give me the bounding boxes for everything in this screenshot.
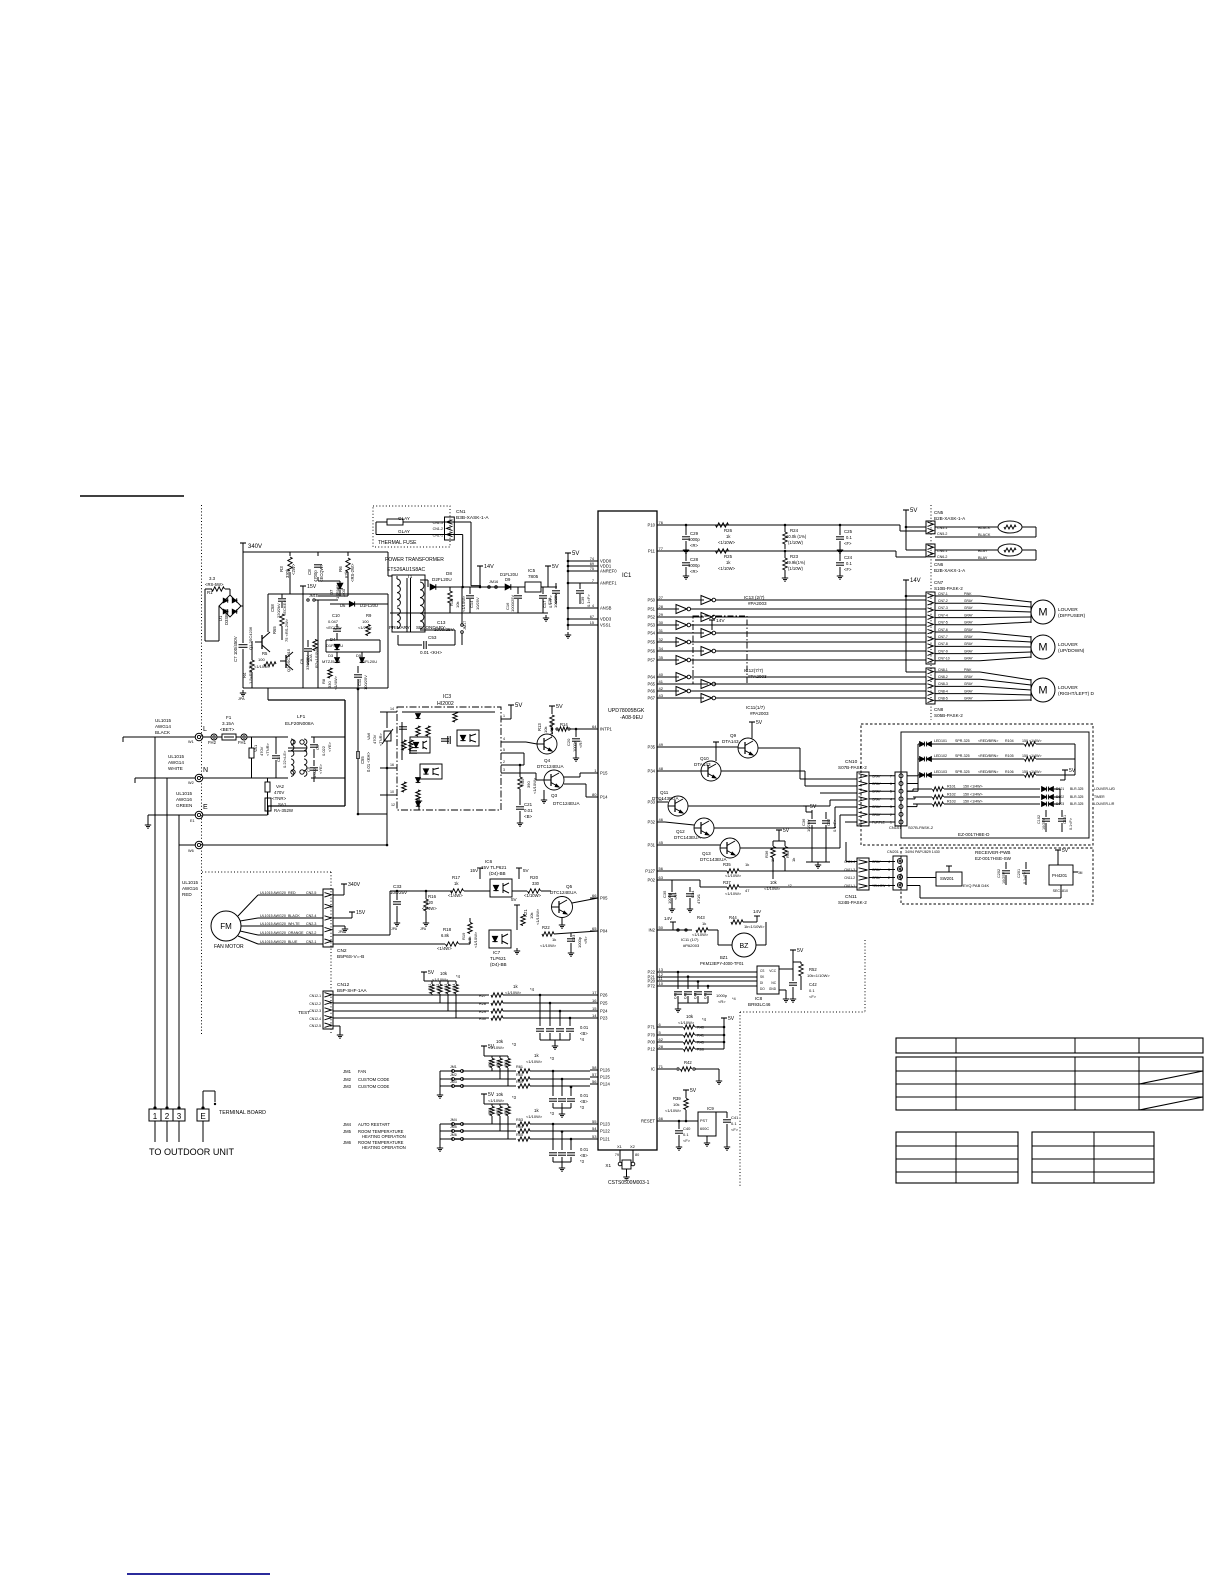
svg-text:P55: P55 <box>648 640 656 645</box>
svg-text:220/2kV: 220/2kV <box>276 603 281 618</box>
svg-text:W6: W6 <box>188 849 194 853</box>
svg-text:C29: C29 <box>690 531 699 536</box>
svg-text:RED: RED <box>182 892 192 897</box>
svg-text:0.01: 0.01 <box>580 1147 589 1152</box>
svg-text:CN8-1: CN8-1 <box>938 668 948 672</box>
svg-text:<1/10W>: <1/10W> <box>540 943 557 948</box>
svg-text:*3: *3 <box>550 1111 555 1116</box>
transistor Q13 <box>720 838 740 858</box>
svg-text:JPA: JPA <box>238 697 245 701</box>
svg-text:CN12-1: CN12-1 <box>309 994 321 998</box>
svg-text:4700p: 4700p <box>313 570 318 582</box>
node 5V tick r31 <box>421 971 427 973</box>
svg-text:R52: R52 <box>809 967 817 972</box>
motor M2 louver up/down <box>1031 635 1055 659</box>
svg-text:UL1015 AWG20: UL1015 AWG20 <box>260 922 286 926</box>
svg-text:M: M <box>1038 607 1047 619</box>
svg-text:3: 3 <box>503 768 505 772</box>
resistor network R31-R34 <box>431 981 433 984</box>
svg-text:FH1: FH1 <box>238 740 247 745</box>
svg-text:P31: P31 <box>648 843 656 848</box>
resistor R53 <box>518 1122 530 1126</box>
capacitor C21 <box>516 806 524 808</box>
svg-text:LOUVER-U/D: LOUVER-U/D <box>1094 787 1115 791</box>
svg-text:CN8: CN8 <box>934 707 944 712</box>
resistor network R64 R63 R62 <box>491 1056 493 1058</box>
IC3 left pin 16 <box>380 767 397 769</box>
node 14V tick ic12 <box>709 619 715 621</box>
resistor R6 <box>346 558 350 572</box>
IC U5 regulator 7805 <box>525 582 541 592</box>
svg-text:R9: R9 <box>366 613 372 618</box>
svg-text:UL1015 AWG20: UL1015 AWG20 <box>260 931 286 935</box>
resistor R35 <box>727 869 739 873</box>
svg-text:14: 14 <box>592 1013 597 1018</box>
svg-text:79: 79 <box>615 1153 619 1157</box>
jumper JM16 <box>488 586 491 589</box>
svg-text:P32: P32 <box>648 820 656 825</box>
fuse holder FH1 <box>241 734 247 740</box>
connector CN2 <box>323 889 333 947</box>
svg-text:R8: R8 <box>321 678 326 684</box>
terminal box E <box>197 1109 209 1121</box>
wire thermal fuse upper <box>376 521 387 523</box>
svg-text:GLAY: GLAY <box>398 516 410 521</box>
svg-text:R16: R16 <box>428 894 437 899</box>
svg-text:UL1015 AWG20: UL1015 AWG20 <box>260 940 286 944</box>
svg-text:TIMER: TIMER <box>1094 795 1105 799</box>
wire thermal fuse lower <box>376 534 463 536</box>
svg-text:R106: R106 <box>1005 770 1014 774</box>
transformer T1 core <box>406 578 408 632</box>
svg-text:IN2: IN2 <box>648 928 655 933</box>
wire R3 bottom <box>289 572 291 594</box>
svg-text:0.01: 0.01 <box>580 1093 589 1098</box>
svg-text:UL1015 AWG20: UL1015 AWG20 <box>260 891 286 895</box>
wire P10 line <box>665 524 900 526</box>
svg-text:<1/10W>: <1/10W> <box>505 990 522 995</box>
svg-text:P12: P12 <box>648 1047 656 1052</box>
svg-text:(1/10W): (1/10W) <box>788 540 803 545</box>
CN101 pin circles <box>899 774 903 778</box>
terminal W6 <box>195 841 203 849</box>
ground c35 c34 <box>671 906 673 909</box>
svg-text:C14: C14 <box>469 600 474 608</box>
svg-text:0.022: 0.022 <box>312 767 317 778</box>
svg-text:330k: 330k <box>285 568 290 578</box>
svg-text:P65: P65 <box>648 682 656 687</box>
svg-text:46: 46 <box>659 817 664 822</box>
svg-text:UL1015: UL1015 <box>155 718 172 723</box>
led rows LED101-103 <box>907 775 918 777</box>
capacitor C101 <box>1058 818 1066 820</box>
terminal E <box>195 811 203 819</box>
transistor Q10 <box>701 761 721 781</box>
thermal fuse dotted box <box>373 506 450 547</box>
svg-text:10k: 10k <box>496 1039 504 1044</box>
svg-text:R27: R27 <box>479 994 486 998</box>
wire receiver bottom <box>907 885 920 887</box>
wire psu ground rail <box>390 612 548 614</box>
svg-text:C9: C9 <box>299 658 304 664</box>
svg-text:4: 4 <box>592 604 594 608</box>
svg-text:GRAY: GRAY <box>964 657 974 661</box>
capacitor C53 <box>423 641 425 649</box>
resistor R36 <box>771 847 775 858</box>
svg-text:CN12-5: CN12-5 <box>309 1024 321 1028</box>
svg-text:7: 7 <box>592 579 594 583</box>
svg-text:WHITE: WHITE <box>168 766 183 771</box>
svg-text:JM3: JM3 <box>450 1080 457 1084</box>
svg-text:<ECQB>: <ECQB> <box>326 625 343 630</box>
svg-text:CN7-10: CN7-10 <box>938 657 950 661</box>
surge arrester SA1 <box>265 798 271 811</box>
svg-text:PKM13EPY-4000-TF01: PKM13EPY-4000-TF01 <box>700 961 744 966</box>
svg-text:<1/4W>: <1/4W> <box>333 675 338 690</box>
wire cn101 to rows <box>907 790 913 792</box>
svg-text:IC5: IC5 <box>528 568 536 573</box>
svg-text:GRAY: GRAY <box>964 697 974 701</box>
svg-text:<B>: <B> <box>580 1099 588 1104</box>
resistor R44 <box>731 920 743 924</box>
svg-text:DO: DO <box>760 987 765 991</box>
svg-text:5V: 5V <box>523 868 530 873</box>
svg-text:5V: 5V <box>1062 848 1069 854</box>
capacitor C25 <box>836 536 844 538</box>
motor M3 louver right/left <box>1031 678 1055 702</box>
IC3 right pin 5 <box>501 752 524 754</box>
transistor Q3 <box>544 770 564 790</box>
svg-text:DTC124EUA: DTC124EUA <box>550 890 577 895</box>
svg-text:GND: GND <box>769 987 777 991</box>
wire ic9 bottom <box>706 1136 708 1140</box>
svg-text:R54: R54 <box>516 1125 523 1129</box>
svg-text:3M: 3M <box>1078 871 1083 875</box>
table small right <box>1032 1132 1154 1183</box>
svg-text:CN8-4: CN8-4 <box>938 689 948 693</box>
svg-text:P35: P35 <box>648 745 656 750</box>
svg-text:66: 66 <box>659 1116 664 1121</box>
svg-text:C55: C55 <box>360 756 365 764</box>
connector CN8 <box>926 668 935 704</box>
svg-text:<1/10W>: <1/10W> <box>535 908 540 925</box>
svg-text:1k: 1k <box>552 937 556 942</box>
resistor R15 <box>518 777 522 789</box>
svg-text:GRAY: GRAY <box>964 599 974 603</box>
svg-text:<1/10W>: <1/10W> <box>725 891 742 896</box>
resistor R1 <box>212 587 225 591</box>
wire N line <box>135 777 195 779</box>
svg-text:R38: R38 <box>785 850 790 858</box>
transistor Q12 <box>694 818 714 838</box>
wire terminal 2 drop <box>166 778 168 1109</box>
svg-text:CN7-2: CN7-2 <box>938 599 948 603</box>
ground c50 group <box>561 1111 563 1114</box>
wire jm456 left bus <box>440 1123 453 1125</box>
svg-text:R24: R24 <box>790 528 799 533</box>
resistor R10 <box>448 591 452 603</box>
svg-text:5V: 5V <box>428 970 435 976</box>
svg-text:47: 47 <box>745 888 750 893</box>
svg-text:SEC1810: SEC1810 <box>1053 889 1068 893</box>
svg-text:CN12-2: CN12-2 <box>309 1002 321 1006</box>
svg-text:LF1: LF1 <box>297 714 306 720</box>
IC1 right pin stubs <box>657 524 665 526</box>
capacitor C34 <box>686 893 694 895</box>
svg-text:470V: 470V <box>259 746 264 756</box>
svg-text:CUSTOM CODE: CUSTOM CODE <box>358 1077 390 1082</box>
capacitor C39 <box>576 590 584 592</box>
svg-text:TLP621: TLP621 <box>490 956 507 961</box>
svg-text:P50: P50 <box>648 598 656 603</box>
svg-text:S24B-PASK-2: S24B-PASK-2 <box>838 900 867 905</box>
svg-text:GRAY: GRAY <box>964 682 974 686</box>
svg-text:R31: R31 <box>428 984 432 990</box>
node 340V tick fan <box>341 883 347 885</box>
IC12 dash-dot frame <box>693 616 747 684</box>
resistor R19 <box>468 923 472 934</box>
resistor R55 <box>518 1137 530 1141</box>
svg-text:43: 43 <box>659 693 664 698</box>
node 15V tick fan <box>349 911 355 913</box>
transistor Q1 2SC4236 <box>261 635 263 649</box>
svg-text:C1: C1 <box>276 756 281 762</box>
svg-text:62: 62 <box>659 1037 664 1042</box>
wire motor2 leads <box>980 632 1031 637</box>
ground c36 <box>806 861 830 863</box>
svg-text:BLAY: BLAY <box>978 556 988 560</box>
svg-text:0.1: 0.1 <box>846 535 852 540</box>
svg-text:Q12: Q12 <box>676 829 685 834</box>
wire fan motor leads <box>238 895 258 916</box>
svg-text:CN11-1: CN11-1 <box>844 884 855 888</box>
wire q9-13 to cn10 <box>758 747 800 749</box>
svg-text:ELF20N008A: ELF20N008A <box>285 721 315 727</box>
wire E line <box>148 814 195 816</box>
svg-text:D1FL20U: D1FL20U <box>500 572 518 577</box>
svg-text:P05: P05 <box>600 896 608 901</box>
resistor R30 <box>491 1016 503 1020</box>
IC3 dash-dot frame <box>397 707 501 810</box>
svg-text:P14: P14 <box>600 795 608 800</box>
resistor R28 <box>491 1001 503 1005</box>
svg-text:<1/4W>: <1/4W> <box>437 946 452 951</box>
svg-text:(D4)-BB: (D4)-BB <box>489 871 506 876</box>
svg-text:63: 63 <box>659 875 664 880</box>
capacitor C28 <box>682 562 690 564</box>
capacitor C20 <box>572 738 580 740</box>
svg-text:SPR-325: SPR-325 <box>955 739 970 743</box>
svg-text:5V: 5V <box>810 804 817 810</box>
svg-text:R19: R19 <box>461 932 466 940</box>
svg-text:150 <1/4W>: 150 <1/4W> <box>1022 770 1042 774</box>
svg-text:<R>: <R> <box>690 569 698 574</box>
svg-text:<1/10W>: <1/10W> <box>725 873 742 878</box>
svg-text:10/25V: 10/25V <box>806 819 811 832</box>
resistor R20 <box>528 889 541 893</box>
svg-text:JM5: JM5 <box>343 1129 352 1134</box>
svg-text:<ECKE>: <ECKE> <box>282 600 287 616</box>
svg-text:<YE>: <YE> <box>318 763 323 774</box>
svg-text:UL1015: UL1015 <box>182 880 199 885</box>
IC3 right pin 2 <box>501 764 524 766</box>
resistor R27 <box>491 993 503 997</box>
connector CN1 <box>445 517 455 540</box>
svg-text:5V: 5V <box>511 897 518 902</box>
svg-text:BLUE: BLUE <box>288 940 298 944</box>
svg-text:65: 65 <box>592 926 597 931</box>
svg-text:R37: R37 <box>723 880 731 885</box>
capacitor C10 <box>333 628 341 630</box>
svg-text:1000p: 1000p <box>667 892 672 904</box>
svg-text:P123: P123 <box>600 1122 610 1127</box>
ground psu JPA <box>242 690 244 693</box>
svg-text:P10: P10 <box>648 523 656 528</box>
svg-text:BLACK: BLACK <box>155 730 171 735</box>
svg-text:10k: 10k <box>770 880 778 885</box>
capacitor C41 <box>723 1119 731 1121</box>
svg-text:(D4)-BB: (D4)-BB <box>490 962 507 967</box>
terminal box 1 <box>149 1109 161 1121</box>
ground cn12-5 <box>339 1032 341 1035</box>
capacitor C8 <box>314 564 322 566</box>
fuse F1 <box>222 734 236 740</box>
svg-text:CN1-2: CN1-2 <box>433 527 443 531</box>
svg-text:TEST: TEST <box>298 1010 310 1015</box>
svg-text:P126: P126 <box>600 1068 610 1073</box>
svg-text:CN8-2: CN8-2 <box>938 675 948 679</box>
svg-text:3.3: 3.3 <box>209 576 216 581</box>
svg-text:B3B-XASK-1-A: B3B-XASK-1-A <box>456 515 489 521</box>
svg-text:R53: R53 <box>516 1118 523 1122</box>
svg-text:1: 1 <box>503 714 505 718</box>
node 15V tick psu2 <box>300 585 306 587</box>
capacitor group C24-C27 <box>539 995 541 1026</box>
IC3 opto C <box>420 764 442 779</box>
svg-text:JPA: JPA <box>391 927 398 931</box>
table main <box>896 1057 1203 1110</box>
svg-text:R57: R57 <box>496 1108 500 1114</box>
svg-text:E: E <box>200 1112 205 1121</box>
svg-text:BZ: BZ <box>740 943 750 950</box>
svg-text:*4: *4 <box>530 987 535 992</box>
svg-text:CN7-7: CN7-7 <box>938 635 948 639</box>
svg-text:X1: X1 <box>617 1144 623 1149</box>
ground c21 <box>519 820 521 823</box>
svg-text:ANREF0: ANREF0 <box>600 569 617 574</box>
svg-text:S07B-PASK-2: S07B-PASK-2 <box>908 825 934 830</box>
ground c20 <box>575 755 577 758</box>
svg-text:ETS26AU1S8AC: ETS26AU1S8AC <box>387 567 425 573</box>
svg-text:VA2: VA2 <box>276 784 285 789</box>
svg-text:100/25V: 100/25V <box>390 890 408 895</box>
wire lamp1 loop <box>935 526 998 528</box>
svg-text:56: 56 <box>592 1079 597 1084</box>
ground cap group <box>554 1043 556 1046</box>
svg-text:Q10: Q10 <box>700 756 709 761</box>
svg-text:*4: *4 <box>580 1037 585 1042</box>
svg-text:34: 34 <box>659 646 664 651</box>
svg-text:S10B-PASK-2: S10B-PASK-2 <box>934 586 963 591</box>
IC3 right pin 3 <box>501 772 524 774</box>
svg-text:D2FL20U: D2FL20U <box>432 577 452 582</box>
svg-text:P124: P124 <box>600 1082 610 1087</box>
svg-text:53: 53 <box>592 1134 597 1139</box>
wire 5V vertical bus <box>567 553 569 630</box>
resistor R8 <box>328 668 332 678</box>
buzzer BZ1 <box>732 933 756 957</box>
svg-text:P71: P71 <box>648 1025 656 1030</box>
resistor R16 <box>424 899 428 911</box>
svg-text:C43: C43 <box>704 993 708 999</box>
svg-text:S05B-PASK-2: S05B-PASK-2 <box>934 713 963 718</box>
svg-text:R4: R4 <box>242 672 247 678</box>
svg-text:SW201: SW201 <box>940 876 954 881</box>
svg-text:30: 30 <box>659 620 664 625</box>
node 5V tick c36 <box>803 805 809 807</box>
svg-text:10.0k (1%): 10.0k (1%) <box>786 534 807 539</box>
varistor VA2 <box>265 782 270 792</box>
svg-text:C34: C34 <box>690 890 695 898</box>
svg-text:4.7k: 4.7k <box>467 936 472 944</box>
connector CN10 <box>857 772 869 826</box>
svg-text:C28: C28 <box>690 557 699 562</box>
resistor R23 <box>783 558 787 570</box>
svg-text:BR93LC46: BR93LC46 <box>748 1002 771 1007</box>
wire filter loop <box>268 699 345 701</box>
resistor R38 <box>783 847 787 858</box>
svg-text:JM2: JM2 <box>450 1073 457 1077</box>
resistor R65 <box>280 614 284 626</box>
terminal box 3 <box>173 1109 185 1121</box>
svg-text:1000/25V: 1000/25V <box>510 595 515 612</box>
svg-text:42: 42 <box>659 686 664 691</box>
svg-text:R35: R35 <box>723 862 731 867</box>
svg-text:S07B-PASK-2: S07B-PASK-2 <box>838 765 867 770</box>
svg-text:WH-TE: WH-TE <box>288 922 300 926</box>
svg-text:D1FL20U: D1FL20U <box>360 659 377 664</box>
svg-text:R102: R102 <box>947 793 956 797</box>
svg-text:<1/10W>: <1/10W> <box>718 540 736 545</box>
svg-text:CN11-3: CN11-3 <box>844 868 855 872</box>
svg-text:0.01 <KH>: 0.01 <KH> <box>420 650 442 655</box>
svg-text:R30: R30 <box>479 1017 486 1021</box>
svg-text:58: 58 <box>592 1065 597 1070</box>
svg-text:15: 15 <box>590 621 594 625</box>
svg-text:R105: R105 <box>1005 754 1014 758</box>
svg-text:54: 54 <box>592 1126 597 1131</box>
wire 5V pin feeds <box>568 560 598 562</box>
capacitor group C50-C52 <box>552 1071 554 1096</box>
node 5V tick r58 <box>481 1093 487 1095</box>
node 5V tick ic6 <box>518 868 520 879</box>
svg-text:470/1: 470/1 <box>696 893 701 904</box>
svg-text:THERMAL FUSE: THERMAL FUSE <box>378 540 417 546</box>
svg-text:28: 28 <box>659 1044 664 1049</box>
svg-text:<RED/BRN>: <RED/BRN> <box>978 770 998 774</box>
wire cn2-1 out <box>333 943 445 945</box>
resistor R59 <box>518 1084 530 1088</box>
svg-text:150 <1/4W>: 150 <1/4W> <box>963 785 983 789</box>
IC1 bottom pins X1 X2 <box>619 1150 621 1158</box>
svg-text:15: 15 <box>592 1006 597 1011</box>
svg-text:10/25V: 10/25V <box>1002 871 1006 884</box>
svg-text:C202: C202 <box>997 869 1001 878</box>
lamp LAMP2 <box>998 544 1022 556</box>
svg-text:<F>: <F> <box>844 567 852 572</box>
svg-text:P64: P64 <box>648 675 656 680</box>
svg-text:CN7-5: CN7-5 <box>938 621 948 625</box>
